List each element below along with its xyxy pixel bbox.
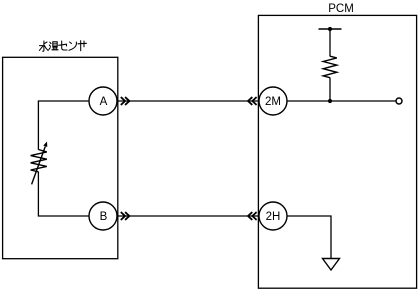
thermistor RT1 zigzag [31,150,47,172]
PCM box [258,15,416,288]
wire sensor loop left side [38,101,103,150]
svg-text:B: B [100,211,108,223]
ground [323,259,340,271]
node B [89,202,117,230]
wire B to 2H [103,215,273,217]
wire resistor to junction [329,78,331,102]
connector chevrons 2H in [248,212,257,220]
svg-text:A: A [100,96,108,108]
power rail bar [319,28,342,30]
power rail dot [328,27,332,31]
svg-text:2M: 2M [265,96,281,108]
wire 2M to terminal [273,100,396,102]
connector chevrons A out [121,97,130,105]
node 2H [259,202,287,230]
resistor R1 zigzag [323,56,337,77]
svg-text:PCM: PCM [328,3,354,15]
sensor box [3,57,118,258]
wire A to 2M [103,100,273,102]
connector chevrons 2M in [248,97,257,105]
connector chevrons B out [121,212,130,220]
terminal circle [396,98,402,104]
thermistor arrow [32,146,46,184]
junction dot [328,99,332,103]
wire 2H to ground [273,216,331,259]
svg-text:2H: 2H [266,211,281,223]
wire power to resistor [329,29,331,56]
node 2M [259,87,287,115]
label 水温センサ (drawn glyphs) [39,41,86,52]
node A [89,87,117,115]
wire thermistor bottom to B [38,172,103,216]
